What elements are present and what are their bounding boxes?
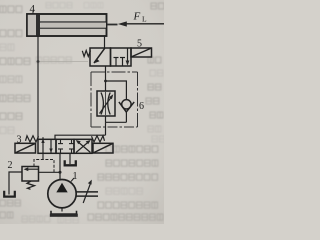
svg-text:F: F: [133, 11, 141, 23]
svg-text:6: 6: [139, 101, 144, 112]
svg-text:1: 1: [73, 171, 78, 182]
svg-text:3: 3: [17, 135, 22, 146]
svg-text:L: L: [142, 15, 147, 24]
svg-text:4: 4: [30, 3, 36, 15]
svg-text:2: 2: [8, 160, 13, 171]
svg-text:5: 5: [137, 39, 142, 50]
